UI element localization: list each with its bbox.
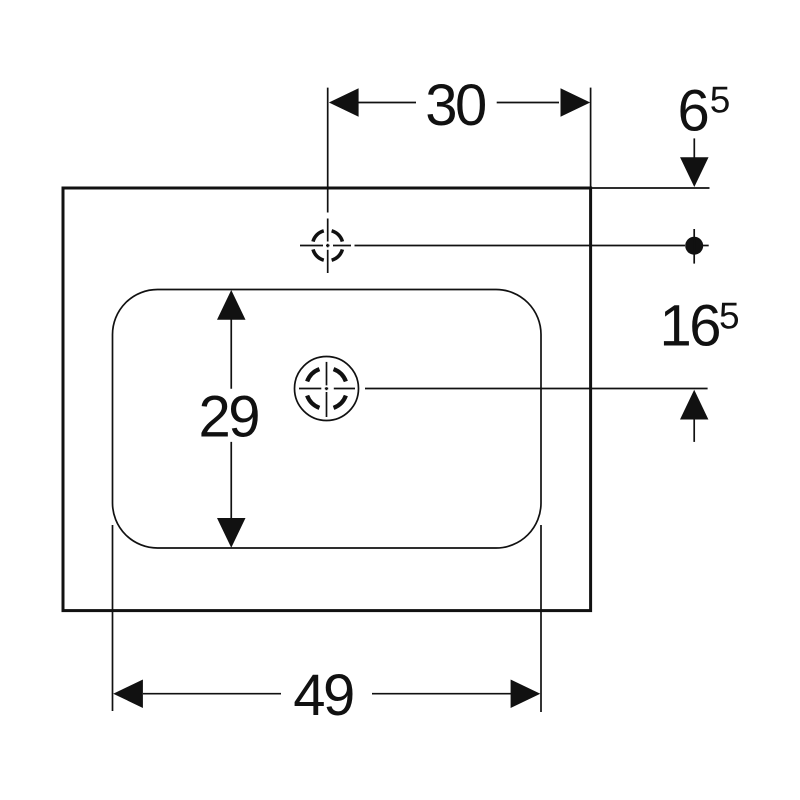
- tap hole arcs: [313, 231, 342, 260]
- dim 49: right arrowhead: [511, 679, 541, 708]
- dim 49: dimension line: [143, 693, 511, 695]
- tap hole horizontal centerline + long line to dot: [300, 245, 709, 247]
- dim 30: left arrowhead: [329, 88, 359, 117]
- basin outer rectangle: [63, 188, 591, 611]
- dim 6.5: down arrowhead: [680, 157, 709, 187]
- dim 49: left arrowhead: [113, 679, 143, 708]
- drain outer circle: [295, 357, 359, 421]
- drain vertical centerline: [326, 362, 328, 417]
- svg-text:29: 29: [199, 385, 259, 450]
- dim 6.5: arrow stem: [693, 138, 695, 160]
- tap hole vertical centerline (also 30-dim left extension): [327, 88, 329, 273]
- dim 16.5: arrow stem: [693, 419, 695, 442]
- dim 29: up arrowhead: [217, 290, 246, 320]
- dot vertical centerline: [693, 229, 695, 264]
- dim 49: extension line right: [540, 525, 542, 712]
- svg-text:30: 30: [425, 73, 485, 138]
- dim 30: right arrowhead: [561, 88, 591, 117]
- dim 16.5: up arrowhead: [680, 390, 708, 420]
- dim 49: extension line left: [112, 525, 114, 711]
- dim 30: extension line right (above rect): [590, 88, 592, 188]
- dim 29: dimension line: [230, 319, 232, 519]
- drain horizontal centerline + long line to right: [299, 388, 708, 390]
- dim 30: dimension line: [358, 102, 559, 104]
- bowl rounded rectangle: [113, 290, 542, 549]
- dim 29: down arrowhead: [217, 518, 246, 548]
- dim 6.5: top edge extension line: [592, 187, 710, 189]
- reference dot on tap line: [685, 237, 703, 255]
- svg-text:49: 49: [293, 663, 353, 728]
- drain inner arcs: [307, 369, 346, 408]
